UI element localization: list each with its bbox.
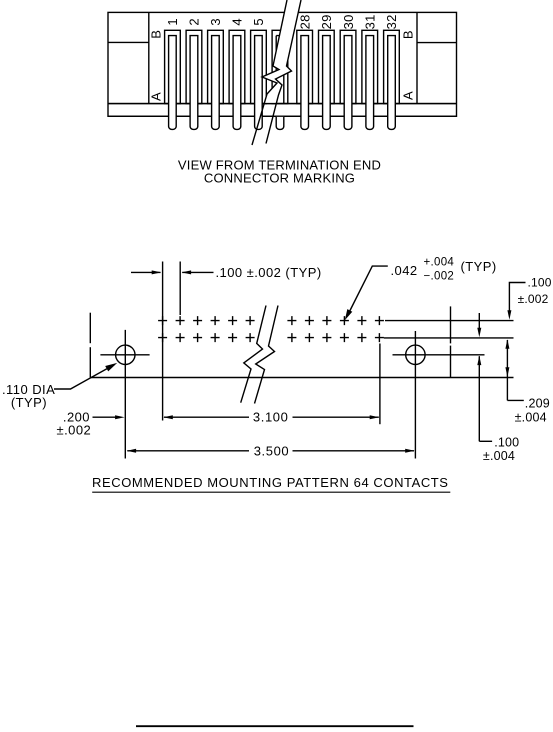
partial termination pin stub at break bbox=[276, 117, 284, 129]
contact slot 3 bbox=[208, 30, 224, 103]
left end-wall horizontal divider bbox=[108, 41, 149, 43]
svg-text:5: 5 bbox=[251, 18, 266, 25]
svg-text:32: 32 bbox=[384, 14, 399, 29]
contact slot 29 bbox=[319, 30, 335, 103]
row-2 extension line right bbox=[384, 337, 514, 339]
hole right crosshair h bbox=[393, 354, 485, 356]
strip bottom line redraw bbox=[108, 115, 457, 117]
termination pin 31 bbox=[366, 36, 374, 130]
row-1 extension line right bbox=[385, 320, 514, 322]
strip top line redraw bbox=[108, 103, 457, 105]
hole right crosshair v bbox=[414, 331, 416, 459]
contact slot 1 bbox=[165, 30, 181, 103]
svg-text:(TYP): (TYP) bbox=[461, 259, 497, 274]
svg-text:A: A bbox=[401, 91, 416, 100]
partial pin inner lines bbox=[276, 36, 284, 104]
right end-wall horizontal divider bbox=[417, 42, 457, 44]
pattern right edge bbox=[450, 306, 452, 343]
contact slot 32 bbox=[384, 30, 400, 103]
svg-text:.100 ±.002 (TYP): .100 ±.002 (TYP) bbox=[216, 265, 322, 280]
dim 3.500 bbox=[127, 449, 137, 453]
break band white-out bbox=[262, 0, 301, 103]
svg-text:.100: .100 bbox=[494, 435, 519, 449]
svg-text:CONNECTOR MARKING: CONNECTOR MARKING bbox=[204, 170, 355, 185]
contact slot 2 bbox=[186, 30, 202, 103]
arrow to row2 line bbox=[478, 313, 480, 331]
svg-text:.209: .209 bbox=[525, 396, 550, 410]
right end-wall divider bbox=[416, 12, 418, 103]
leader .100 bottom bbox=[479, 440, 492, 442]
break line left (connector) bbox=[252, 0, 287, 145]
pattern left edge bbox=[89, 313, 91, 344]
extension line last col bbox=[379, 344, 381, 425]
hole left crosshair h bbox=[100, 354, 149, 356]
leader .110 bbox=[54, 365, 115, 390]
svg-text:+.004: +.004 bbox=[424, 256, 455, 268]
svg-text:B: B bbox=[401, 30, 416, 39]
svg-text:±.004: ±.004 bbox=[483, 449, 515, 463]
svg-text:30: 30 bbox=[341, 14, 356, 29]
dim .100 hole arrow bbox=[477, 356, 481, 366]
leader .209 bbox=[507, 399, 523, 401]
dim .209 arrows bbox=[505, 339, 509, 349]
svg-text:.100: .100 bbox=[528, 275, 552, 289]
svg-text:RECOMMENDED MOUNTING PATTERN 6: RECOMMENDED MOUNTING PATTERN 64 CONTACTS bbox=[92, 475, 448, 490]
termination pin 29 bbox=[323, 36, 331, 130]
contact hole crosses 2 rows bbox=[158, 316, 384, 342]
svg-text:A: A bbox=[148, 92, 163, 101]
connector body outline bbox=[108, 12, 457, 116]
svg-text:31: 31 bbox=[362, 14, 377, 29]
termination pin 28 bbox=[301, 36, 309, 130]
mounting hole right bbox=[406, 345, 425, 364]
pattern break line left bbox=[241, 306, 266, 403]
connector wafer strip top line bbox=[108, 103, 457, 105]
termination pin 1 bbox=[169, 36, 177, 130]
svg-text:(TYP): (TYP) bbox=[11, 395, 47, 410]
svg-text:4: 4 bbox=[230, 18, 245, 25]
dim 3.100 bbox=[163, 415, 173, 419]
svg-text:±.004: ±.004 bbox=[515, 410, 547, 424]
break line right (connector) bbox=[266, 0, 301, 144]
svg-text:29: 29 bbox=[319, 14, 334, 29]
svg-text:28: 28 bbox=[297, 14, 312, 29]
hole left crosshair v bbox=[124, 330, 126, 459]
svg-text:.042: .042 bbox=[391, 263, 418, 278]
footer rule bbox=[136, 725, 414, 727]
svg-text:3.100: 3.100 bbox=[253, 410, 289, 425]
contact slot 5 bbox=[251, 30, 267, 103]
termination pin 32 bbox=[388, 36, 396, 130]
leader .100 row pitch bbox=[509, 283, 525, 313]
contact slot 31 bbox=[362, 30, 378, 103]
contact slot 28 bbox=[297, 30, 313, 103]
termination pin 2 bbox=[190, 36, 198, 130]
pattern break line right bbox=[255, 306, 279, 404]
svg-text:2: 2 bbox=[187, 18, 202, 25]
termination pin 5 bbox=[255, 36, 263, 130]
svg-text:3.500: 3.500 bbox=[254, 443, 290, 458]
svg-text:±.002: ±.002 bbox=[57, 423, 92, 438]
extension line col-2 bbox=[179, 262, 181, 316]
contact slot 4 bbox=[229, 30, 245, 103]
svg-text:±.002: ±.002 bbox=[518, 292, 549, 306]
svg-text:1: 1 bbox=[165, 18, 180, 25]
partial contact slot at break bbox=[272, 30, 288, 103]
dim .100 left arrow bbox=[131, 271, 161, 273]
dim .100 right arrow bbox=[182, 270, 192, 274]
mounting hole left bbox=[116, 345, 135, 364]
left end-wall divider bbox=[148, 12, 150, 103]
svg-text:−.002: −.002 bbox=[424, 270, 455, 282]
leader .042 bbox=[348, 266, 388, 315]
contact slot 30 bbox=[340, 30, 356, 103]
extension line col-1 bbox=[162, 262, 164, 421]
termination pin 4 bbox=[233, 36, 241, 130]
svg-text:3: 3 bbox=[208, 18, 223, 25]
pattern bottom edge bbox=[90, 377, 513, 379]
dim .200 arrow bbox=[93, 416, 118, 418]
termination pin 3 bbox=[212, 36, 220, 130]
termination pin 30 bbox=[344, 36, 352, 130]
svg-text:B: B bbox=[148, 30, 163, 39]
title underline bbox=[92, 491, 450, 493]
